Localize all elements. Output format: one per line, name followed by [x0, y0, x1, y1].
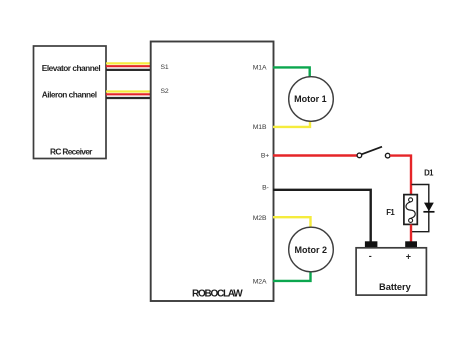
svg-text:M1A: M1A [253, 65, 267, 72]
svg-text:+: + [406, 251, 411, 261]
svg-text:F1: F1 [386, 208, 395, 217]
svg-text:RC Receiver: RC Receiver [50, 146, 93, 156]
svg-text:Elevator channel: Elevator channel [42, 63, 101, 73]
svg-text:B-: B- [262, 184, 269, 191]
svg-text:S2: S2 [161, 88, 169, 95]
svg-text:-: - [369, 251, 372, 261]
svg-text:M1B: M1B [253, 124, 267, 131]
svg-text:M2A: M2A [253, 279, 267, 286]
svg-text:B+: B+ [261, 153, 269, 160]
svg-text:Aileron channel: Aileron channel [42, 90, 97, 100]
svg-text:S1: S1 [161, 64, 169, 71]
svg-text:Motor 2: Motor 2 [295, 245, 328, 255]
svg-text:Motor 1: Motor 1 [294, 94, 327, 104]
svg-text:M2B: M2B [253, 215, 267, 222]
svg-text:D1: D1 [424, 169, 434, 178]
svg-text:Battery: Battery [379, 282, 412, 292]
svg-text:ROBOCLAW: ROBOCLAW [192, 289, 243, 300]
